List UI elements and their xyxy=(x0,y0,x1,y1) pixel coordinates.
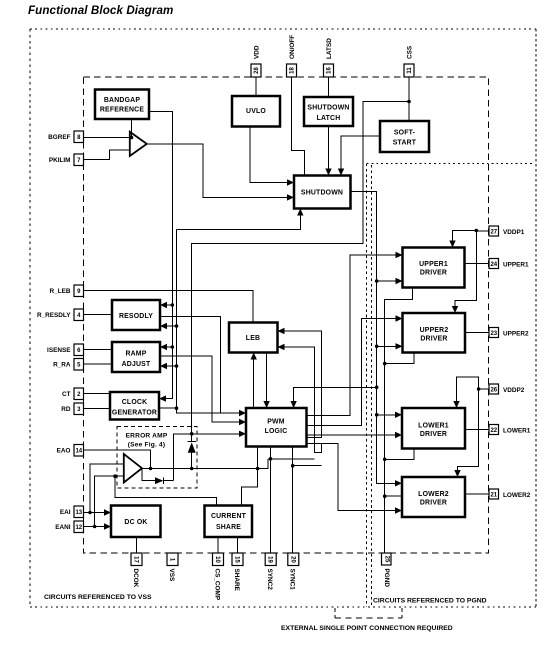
svg-text:RAMP: RAMP xyxy=(125,351,146,358)
block LEB xyxy=(229,323,278,353)
svg-text:DRIVER: DRIVER xyxy=(420,431,447,438)
svg-text:UPPER1: UPPER1 xyxy=(419,261,448,268)
wire PWM bottom to EAO node and CURRENT SHARE xyxy=(241,447,257,506)
wire clock rail to SHUTDOWN bottom input xyxy=(177,212,301,230)
wire PWM bottom to SYNC1 pin20 xyxy=(292,447,294,554)
svg-text:UVLO: UVLO xyxy=(246,108,266,115)
wire bus branch to PWM LOGIC top xyxy=(294,387,377,405)
svg-text:GENERATOR: GENERATOR xyxy=(112,410,157,417)
pin 23 UPPER2 xyxy=(489,328,529,338)
svg-text:CURRENT: CURRENT xyxy=(211,513,247,520)
svg-text:12: 12 xyxy=(75,525,82,531)
pin 2 CT xyxy=(62,388,84,400)
op-amp buffer U1 (PKILIM buffer) xyxy=(130,132,147,156)
block SHUTDOWN LATCH xyxy=(304,97,353,126)
svg-text:21: 21 xyxy=(490,493,497,499)
wire SHUTDOWN LATCH output to SHUTDOWN top xyxy=(328,126,330,173)
wire PWM output to LOWER2 lower input xyxy=(307,443,400,510)
svg-text:19: 19 xyxy=(267,556,273,563)
svg-text:CIRCUITS REFERENCED TO PGND: CIRCUITS REFERENCED TO PGND xyxy=(373,598,487,605)
wire PKILIM pin7 to buffer input xyxy=(84,150,130,160)
pin 21 LOWER2 xyxy=(489,489,531,499)
svg-text:LOWER2: LOWER2 xyxy=(418,491,449,498)
pin 15 SHARE xyxy=(232,553,243,592)
node EAO/PWM xyxy=(256,467,260,471)
svg-text:10: 10 xyxy=(214,556,220,563)
wire VDDP1 to UPPER1 top xyxy=(453,231,477,245)
svg-text:BANDGAP: BANDGAP xyxy=(104,97,140,104)
svg-text:ISENSE: ISENSE xyxy=(47,347,71,354)
wire bus branch to LOWER1 upper input xyxy=(377,414,399,416)
svg-text:R_RA: R_RA xyxy=(53,362,71,369)
svg-text:17: 17 xyxy=(133,556,139,563)
svg-text:RESODLY: RESODLY xyxy=(119,313,153,320)
arrow into CLOCK GENERATOR right xyxy=(159,395,166,401)
block LOWER1 DRIVER xyxy=(402,408,465,449)
node bandgap/bgref junction xyxy=(130,136,134,140)
arrow into LOWER1 left lower xyxy=(395,432,402,438)
svg-text:VDDP2: VDDP2 xyxy=(503,387,525,394)
arrow into SHUTDOWN top from latch xyxy=(325,169,331,176)
arrow into LEB bottom xyxy=(251,353,257,360)
wire SHUTDOWN output bus to drivers xyxy=(351,191,400,483)
pin 7 PKILIM xyxy=(49,154,84,166)
arrow into LOWER1 top xyxy=(453,401,459,408)
wire D1 cathode to EAO line xyxy=(191,453,193,469)
svg-text:DRIVER: DRIVER xyxy=(420,270,447,277)
node EAO/pin branch xyxy=(149,467,153,471)
svg-text:UPPER2: UPPER2 xyxy=(503,330,529,337)
wire ref branch to RESDLY upper right input xyxy=(166,304,172,306)
pin 1 VSS xyxy=(167,553,178,582)
arrow into RESDLY right lower xyxy=(160,323,167,329)
pin 26 VDDP2 xyxy=(489,384,525,394)
node EAO/D1 xyxy=(190,467,194,471)
pin 16 LATSD xyxy=(324,38,334,77)
wire CS_COMP rail up to PWM left entry xyxy=(174,434,192,481)
wire PWM output to UPPER2 upper input xyxy=(307,319,400,426)
wire LOWER1 output to pin22 xyxy=(465,429,489,431)
node bus/UPPER1 xyxy=(375,279,379,283)
node bus/PWM xyxy=(375,386,379,390)
wire UPPER2 output to pin23 xyxy=(465,332,489,334)
pin 4 R_RESDLY xyxy=(37,309,84,321)
block BANDGAP REFERENCE xyxy=(95,90,149,120)
svg-text:CIRCUITS REFERENCED TO VSS: CIRCUITS REFERENCED TO VSS xyxy=(44,594,152,601)
wire bus branch to UPPER1 lower input xyxy=(377,280,400,282)
wire CSS pin11 to SOFT-START top xyxy=(408,77,410,121)
svg-text:VDDP1: VDDP1 xyxy=(503,229,525,236)
wire R_RA pin5 to RAMP ADJUST left xyxy=(84,363,113,365)
svg-text:28: 28 xyxy=(254,67,260,74)
arrow into SHUTDOWN left lower xyxy=(287,194,294,200)
wire amp input tap down to CURRENT SHARE top xyxy=(115,476,216,505)
wire LOWER1 return jog xyxy=(385,449,414,460)
svg-text:SHUTDOWN: SHUTDOWN xyxy=(301,190,343,197)
node SYNC1 branch xyxy=(291,464,295,468)
svg-text:BGREF: BGREF xyxy=(48,134,70,141)
wire SOFT-START left output to SHUTDOWN top xyxy=(341,136,380,173)
block UVLO xyxy=(232,96,280,127)
svg-text:ERROR AMP: ERROR AMP xyxy=(126,433,168,440)
wire VDDP1 to UPPER2 top xyxy=(455,231,476,311)
pin 10 CS_COMP xyxy=(213,553,224,601)
wire buffer output to SHUTDOWN left input xyxy=(147,144,291,198)
arrow into RAMP ADJUST right upper xyxy=(160,344,167,350)
svg-text:22: 22 xyxy=(490,428,497,434)
svg-text:SYNC1: SYNC1 xyxy=(289,569,296,591)
svg-text:LOWER1: LOWER1 xyxy=(503,427,531,434)
svg-text:EANI: EANI xyxy=(55,524,70,531)
svg-text:SYNC2: SYNC2 xyxy=(266,569,273,591)
node bus/UPPER2 xyxy=(375,345,379,349)
wire EANI up to error amp non-inverting input xyxy=(95,476,124,526)
wire pkilim branch to RESDLY lower right input xyxy=(166,325,177,327)
diode D2 current-share clamp xyxy=(155,477,164,484)
arrow into SHUTDOWN left upper xyxy=(287,179,294,185)
arrow into LOWER2 left upper xyxy=(395,480,402,486)
arrow into PWM left lower xyxy=(239,431,246,437)
wire SYNC1 branch right xyxy=(293,465,322,467)
wire RESDLY output down to PWM row xyxy=(160,317,221,414)
wire UPPER2 return jog xyxy=(385,353,414,364)
block DC OK xyxy=(111,506,161,538)
svg-text:24: 24 xyxy=(490,262,497,268)
pin 22 LOWER1 xyxy=(489,425,531,435)
pin 28 VDD xyxy=(251,45,261,77)
arrow into LOWER2 left lower xyxy=(395,507,402,513)
node VDDP2 branch xyxy=(477,387,481,391)
arrow into UPPER1 left lower xyxy=(396,278,403,284)
arrow into PWM top xyxy=(263,401,269,408)
wire D2 cathode to CS_COMP rail xyxy=(164,480,174,482)
wire RD pin3 to CLOCK GENERATOR left xyxy=(84,408,111,410)
wire UVLO output to SHUTDOWN left upper xyxy=(250,127,291,183)
wire clock distribution rail down to PWM input row xyxy=(177,229,244,413)
pin 9 R_LEB xyxy=(50,285,84,297)
wire error amp output to clamp diode D2 xyxy=(142,469,155,481)
wire EAI pin13 to DC OK and error amp xyxy=(84,512,109,514)
node VDDP1 branch xyxy=(475,229,479,233)
svg-text:LATCH: LATCH xyxy=(317,115,341,122)
wire LATSD pin16 to SHUTDOWN LATCH top xyxy=(328,77,330,97)
pin 17 DCOK xyxy=(131,553,142,588)
arrow into DC OK left lower xyxy=(104,523,111,529)
svg-text:23: 23 xyxy=(490,331,497,337)
pin 11 CSS xyxy=(404,45,414,77)
svg-text:ADJUST: ADJUST xyxy=(122,361,151,368)
block CLOCK GENERATOR xyxy=(110,392,159,420)
block SHUTDOWN xyxy=(294,176,351,209)
node ref/RESDLY branch xyxy=(171,303,175,307)
svg-text:LOGIC: LOGIC xyxy=(265,428,288,435)
svg-text:15: 15 xyxy=(234,556,240,563)
wire RAMP ADJUST output to PWM middle input xyxy=(160,356,243,422)
pin 3 RD xyxy=(61,403,83,415)
svg-text:LEB: LEB xyxy=(246,335,260,342)
wire staircase from PWM out row to LEB lower input xyxy=(281,347,322,452)
svg-text:RD: RD xyxy=(61,406,71,413)
arrow into SHUTDOWN bottom xyxy=(297,209,303,216)
node PGND/LOWER1 xyxy=(383,458,387,462)
node clamp/PWM branch xyxy=(190,432,194,436)
node EAI branch xyxy=(88,511,92,515)
svg-text:PGND: PGND xyxy=(383,569,390,588)
svg-text:EAI: EAI xyxy=(60,509,71,516)
arrow into UPPER2 left upper xyxy=(396,315,403,321)
arrow into RAMP ADJUST right lower xyxy=(160,363,167,369)
arrow into PWM left upper xyxy=(239,410,246,416)
svg-text:SHARE: SHARE xyxy=(233,569,240,592)
svg-text:EXTERNAL SINGLE POINT CONNECTI: EXTERNAL SINGLE POINT CONNECTION REQUIRE… xyxy=(281,625,453,632)
svg-text:UPPER2: UPPER2 xyxy=(420,327,449,334)
svg-text:LOWER2: LOWER2 xyxy=(503,492,531,499)
node PGND/LOWER2 xyxy=(383,494,387,498)
pin 13 EAI xyxy=(60,506,84,518)
node EANI branch xyxy=(93,525,97,529)
arrow into SHUTDOWN top from soft-start xyxy=(338,169,344,176)
pin 19 SYNC2 xyxy=(265,553,276,590)
svg-text:LOWER1: LOWER1 xyxy=(418,422,449,429)
arrow into LOWER2 top xyxy=(454,470,460,477)
wire ref branch to RAMP ADJUST upper right input xyxy=(166,346,172,348)
svg-text:25: 25 xyxy=(384,556,390,563)
node CSS branch xyxy=(407,100,411,104)
arrow into RESDLY right upper xyxy=(160,302,167,308)
wire PWM top to LEB bottom xyxy=(253,356,255,409)
wire ISENSE pin6 to RAMP ADJUST left xyxy=(84,349,113,351)
wire VDDP2 pin26 to driver supplies xyxy=(479,388,489,390)
svg-text:Functional Block Diagram: Functional Block Diagram xyxy=(28,4,173,17)
wire bandgap output down to node xyxy=(131,119,133,138)
svg-text:R_RESDLY: R_RESDLY xyxy=(37,312,71,319)
wire pkilim branch to RAMP lower right input xyxy=(166,365,177,367)
arrow into DC OK left upper xyxy=(104,509,111,515)
arrow into UPPER1 top xyxy=(449,241,455,248)
wire DC OK bottom to DCOK pin17 xyxy=(136,537,138,553)
wire EANI pin12 to DC OK and error amp xyxy=(84,526,109,528)
wire EAO pin14 to output node xyxy=(84,450,151,469)
block CURRENT SHARE xyxy=(205,506,253,538)
wire ON/OFF pin18 to SHUTDOWN top xyxy=(292,77,305,176)
arrow into PWM left middle xyxy=(239,419,246,425)
op-amp error amplifier xyxy=(124,454,142,483)
dotted boundary CIRCUITS REFERENCED TO PGND xyxy=(367,164,533,608)
wire CSS to error amp clamp diode D1 xyxy=(192,102,409,442)
wire VDDP2 to LOWER2 top xyxy=(458,389,479,474)
wire SYNC2 branch right xyxy=(268,458,315,460)
svg-text:(See Fig. 4): (See Fig. 4) xyxy=(128,442,166,449)
svg-text:CSS: CSS xyxy=(407,45,414,59)
arrow into LEB right upper xyxy=(278,328,285,334)
svg-text:18: 18 xyxy=(290,67,296,74)
svg-text:13: 13 xyxy=(75,510,82,516)
svg-text:DCOK: DCOK xyxy=(132,569,139,588)
outer dotted boundary box xyxy=(30,29,536,607)
svg-text:R_LEB: R_LEB xyxy=(50,288,71,295)
svg-text:VDD: VDD xyxy=(254,45,261,59)
wire BGREF pin8 to buffer input xyxy=(84,137,130,139)
wire VDD pin28 to UVLO top xyxy=(255,77,257,96)
svg-text:SHARE: SHARE xyxy=(216,524,241,531)
error amp dashed box xyxy=(117,427,197,489)
external single point connection bracket xyxy=(335,608,402,618)
pin 24 UPPER1 xyxy=(489,259,529,269)
svg-text:16: 16 xyxy=(327,67,333,74)
pin 8 BGREF xyxy=(48,131,83,143)
svg-text:20: 20 xyxy=(289,556,295,563)
svg-text:PKILIM: PKILIM xyxy=(49,157,71,164)
node bus/LOWER1 xyxy=(375,413,379,417)
svg-text:REFERENCE: REFERENCE xyxy=(100,107,145,114)
svg-text:27: 27 xyxy=(490,230,497,236)
block LOWER2 DRIVER xyxy=(402,477,465,517)
node clock/rail junction xyxy=(175,406,179,410)
block UPPER1 DRIVER xyxy=(403,248,465,288)
wire clamp node to PWM left lower input xyxy=(192,433,243,435)
arrow into LOWER1 left upper xyxy=(395,412,402,418)
wire bandgap reference rail to RESDLY RAMP CLOCK xyxy=(150,112,172,399)
svg-text:14: 14 xyxy=(75,449,82,455)
node SYNC2 branch xyxy=(269,457,273,461)
wire CURRENT SHARE bottom to SHARE pin15 xyxy=(236,537,238,553)
svg-text:EAO: EAO xyxy=(57,448,71,455)
arrow into UPPER1 left upper xyxy=(396,252,403,258)
svg-text:PWM: PWM xyxy=(267,419,284,426)
svg-text:DRIVER: DRIVER xyxy=(420,500,447,507)
wire PWM output to LEB right upper input xyxy=(281,331,322,437)
pin 6 ISENSE xyxy=(47,344,83,356)
wire LEB bottom to PWM top xyxy=(266,353,268,406)
svg-text:SOFT-: SOFT- xyxy=(394,130,416,137)
arrow into LEB right lower xyxy=(278,344,285,350)
dashed box CIRCUITS REFERENCED TO VSS xyxy=(84,77,489,553)
svg-text:DC OK: DC OK xyxy=(124,519,147,526)
node error amp input tap to current share xyxy=(113,474,117,478)
wire LOWER2 return entry xyxy=(385,495,402,497)
svg-text:26: 26 xyxy=(490,388,497,394)
wire PWM bottom to SYNC2 pin19 xyxy=(270,447,272,554)
wire VDDP2 to LOWER1 top xyxy=(457,377,479,405)
pin 20 SYNC1 xyxy=(288,553,299,590)
wire CLOCK GENERATOR output to pkilim rail row xyxy=(159,407,177,409)
svg-text:DRIVER: DRIVER xyxy=(420,335,447,342)
wire PGND return rail from UPPER1 xyxy=(385,288,413,554)
wire bus branch to UPPER2 lower input xyxy=(377,345,400,347)
pin 5 R_RA xyxy=(53,359,83,371)
pin 12 EANI xyxy=(55,521,83,533)
block UPPER2 DRIVER xyxy=(403,313,466,353)
arrow into UPPER2 top xyxy=(452,306,458,313)
pin 27 VDDP1 xyxy=(489,226,525,236)
arrow into UPPER2 left lower xyxy=(396,343,403,349)
block SOFT-START xyxy=(380,121,429,152)
svg-text:UPPER1: UPPER1 xyxy=(503,261,529,268)
wire CURRENT SHARE bottom to CS_COMP pin10 xyxy=(217,537,219,553)
block RAMP ADJUST xyxy=(112,342,160,372)
svg-text:11: 11 xyxy=(407,67,413,74)
wire VDDP1 pin27 to driver supplies xyxy=(476,230,489,233)
pin 25 PGND xyxy=(382,553,392,587)
arrow into PWM top from bus xyxy=(290,401,296,408)
wire EAO output line xyxy=(142,459,268,469)
wire EAI up to error amp inverting input xyxy=(90,464,124,513)
svg-text:CS_COMP: CS_COMP xyxy=(213,569,220,601)
wire UPPER1 output to pin24 xyxy=(465,263,490,265)
wire CT pin2 to CLOCK GENERATOR left xyxy=(84,393,111,395)
pin 14 EAO xyxy=(57,445,84,457)
pin 18 ON/OFF xyxy=(287,35,297,77)
wire R_LEB pin9 to LEB top xyxy=(84,291,253,323)
wire PWM output to UPPER1 upper input xyxy=(307,255,400,416)
svg-text:ON/OFF: ON/OFF xyxy=(289,35,296,59)
node pkilim/RESDLY branch xyxy=(175,324,179,328)
svg-text:LATSD: LATSD xyxy=(326,38,333,59)
wire R_RESDLY pin4 to RESDLY left xyxy=(84,314,113,316)
block PWM LOGIC xyxy=(246,408,307,447)
wire PWM output to LOWER1 lower input xyxy=(307,434,400,436)
node ref/RAMP branch xyxy=(171,345,175,349)
wire LOWER2 output to pin21 xyxy=(465,493,489,495)
diode D1 soft-start clamp xyxy=(188,442,196,453)
block RESDLY xyxy=(112,300,160,330)
node pkilim/RAMP branch xyxy=(175,364,179,368)
svg-text:START: START xyxy=(393,140,417,147)
node PGND/UPPER2 xyxy=(383,362,387,366)
svg-text:CT: CT xyxy=(62,391,71,398)
svg-text:SHUTDOWN: SHUTDOWN xyxy=(307,105,349,112)
svg-text:VSS: VSS xyxy=(168,569,175,583)
svg-text:CLOCK: CLOCK xyxy=(122,399,148,406)
